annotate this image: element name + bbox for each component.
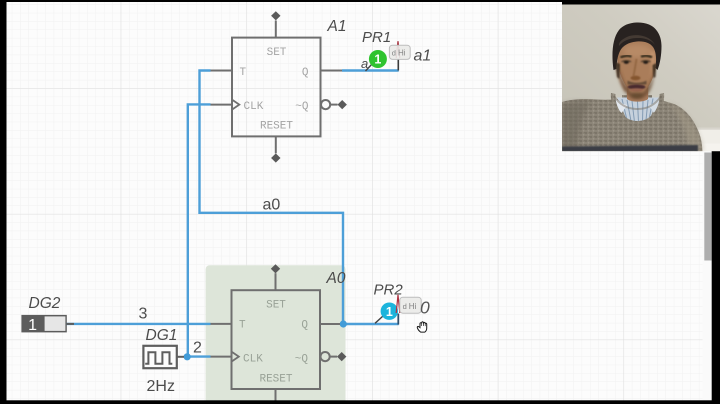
input switch DG2: [21, 315, 74, 334]
person: forehead: [623, 45, 651, 58]
person: face: [618, 36, 657, 93]
person: nose: [634, 59, 637, 76]
svg-text:PR1: PR1: [362, 29, 391, 46]
wire net 3: DG2 to A0.T: [67, 323, 211, 325]
svg-text:RESET: RESET: [259, 374, 292, 386]
svg-text:d: d: [392, 49, 396, 58]
svg-text:1: 1: [374, 53, 381, 67]
flip-flop A1: [211, 21, 343, 154]
A1 pin labels: [240, 47, 309, 133]
A1 notQ diamond: [338, 100, 347, 109]
svg-text:2: 2: [193, 339, 202, 356]
svg-text:a1: a1: [414, 47, 432, 64]
svg-text:T: T: [239, 319, 246, 331]
person: beard shadow: [620, 70, 654, 99]
svg-text:Hi: Hi: [409, 302, 417, 311]
A1 bottom pin diamond: [271, 153, 280, 162]
A0 clk triangle: [232, 352, 239, 362]
svg-text:~Q: ~Q: [295, 101, 309, 113]
svg-text:3: 3: [139, 306, 148, 323]
svg-text:a0: a0: [263, 197, 281, 214]
A0 top pin diamond: [271, 264, 280, 273]
svg-text:A0: A0: [326, 270, 346, 287]
svg-text:Q: Q: [301, 319, 308, 331]
svg-text:~Q: ~Q: [295, 353, 309, 365]
scrollbar thumb: [704, 153, 711, 261]
person: sweater crew neck ring: [611, 93, 664, 127]
wire net a0: A1.T down, across, down to A0.Q, right to probe PR2: [200, 71, 399, 325]
svg-text:2Hz: 2Hz: [147, 378, 175, 395]
person: sweater torso: [562, 95, 703, 152]
person: left sideburn: [616, 62, 621, 79]
person: sweater left arm shading: [562, 102, 590, 151]
svg-text:PR2: PR2: [374, 281, 404, 298]
selection highlight around A0: [206, 265, 346, 404]
junction: A0.Q node: [340, 320, 347, 327]
svg-text:d: d: [403, 302, 407, 311]
letterbox: right strip: [712, 0, 720, 404]
A0 pin labels: [239, 300, 308, 386]
flip-flop A0: [211, 273, 341, 400]
junction: DG1 output node: [184, 353, 191, 360]
A1 clk triangle: [232, 100, 239, 110]
svg-text:DG1: DG1: [146, 327, 178, 344]
svg-text:1: 1: [28, 317, 37, 334]
letterbox: bottom bar: [0, 400, 720, 404]
svg-text:0: 0: [420, 297, 430, 317]
webcam radiator: [696, 128, 720, 152]
person: chin beard patch: [631, 93, 643, 99]
person: face side shading: [616, 56, 630, 92]
person: moustache: [628, 81, 647, 85]
A0 notQ diamond: [337, 352, 346, 361]
webcam overlay: [562, 0, 720, 152]
svg-text:CLK: CLK: [243, 353, 263, 365]
person: lit right side: [648, 50, 655, 82]
person: eyebrows: [621, 56, 632, 58]
person: collar flaps: [612, 96, 628, 114]
person: sweater right highlight: [668, 103, 703, 150]
svg-text:A1: A1: [327, 18, 347, 35]
svg-text:SET: SET: [267, 47, 287, 59]
A1 top pin diamond: [271, 11, 280, 20]
person: eyes: [622, 61, 651, 64]
svg-text:Hi: Hi: [398, 49, 406, 58]
person: mouth: [628, 84, 646, 89]
wire net a1: A1.Q to probe PR1: [342, 69, 399, 71]
probe PR1: [361, 41, 410, 71]
person: shirt collar: [617, 98, 659, 122]
webcam dark desk strip bottom: [562, 145, 698, 152]
svg-text:DG2: DG2: [29, 295, 61, 312]
svg-text:SET: SET: [266, 300, 286, 312]
clock DG1: [143, 346, 184, 368]
svg-text:Q: Q: [302, 67, 309, 79]
wire net 2 (clock): A1.CLK down to DG1 output and on to A0.CLK: [188, 104, 211, 356]
svg-text:1: 1: [386, 305, 393, 319]
A0 notQ bubble: [321, 352, 330, 361]
letterbox: top bar: [0, 0, 720, 2]
person: hair: [612, 22, 661, 70]
mouse hand cursor: [417, 322, 426, 332]
scrollbar track: [703, 2, 713, 404]
letterbox: left bar: [0, 0, 7, 404]
probe PR2: [375, 295, 421, 325]
person: neck: [627, 80, 649, 102]
svg-text:CLK: CLK: [244, 101, 264, 113]
svg-text:RESET: RESET: [260, 121, 293, 133]
person: right sideburn: [653, 63, 657, 78]
A1 notQ bubble: [321, 100, 330, 109]
svg-text:T: T: [240, 67, 247, 79]
webcam wall background: [562, 5, 720, 152]
